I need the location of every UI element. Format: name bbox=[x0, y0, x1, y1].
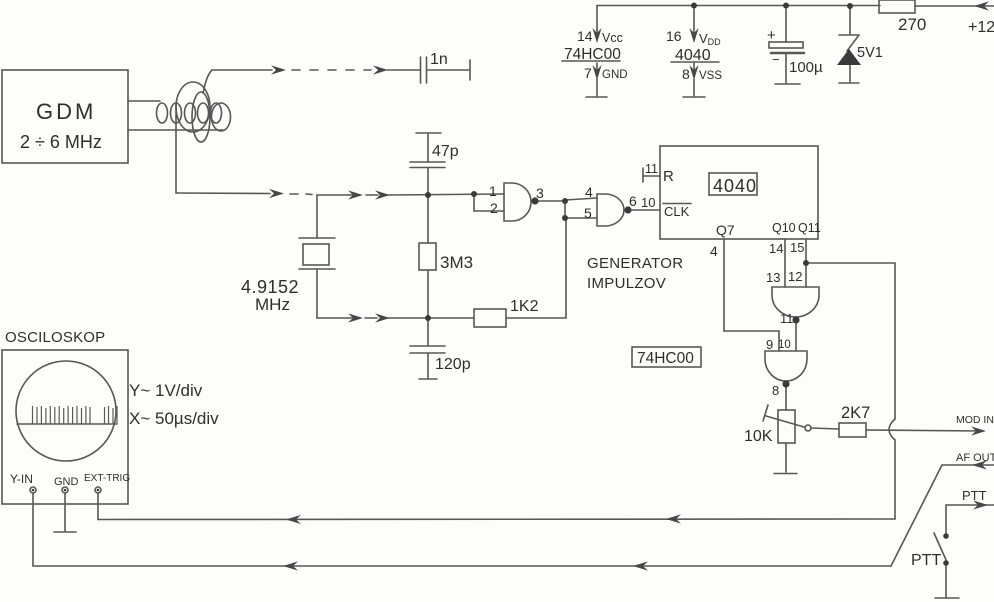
svg-text:2: 2 bbox=[490, 200, 498, 216]
svg-text:11: 11 bbox=[645, 162, 658, 176]
svg-text:Y~ 1V/div: Y~ 1V/div bbox=[129, 381, 203, 400]
svg-text:MOD IN: MOD IN bbox=[956, 414, 994, 426]
svg-text:8: 8 bbox=[682, 66, 690, 82]
svg-text:10: 10 bbox=[641, 195, 655, 210]
svg-text:PTT: PTT bbox=[962, 488, 987, 503]
svg-text:GENERATOR: GENERATOR bbox=[587, 255, 683, 272]
svg-text:EXT-TRIG: EXT-TRIG bbox=[84, 473, 130, 484]
svg-text:16: 16 bbox=[666, 28, 682, 44]
svg-text:1: 1 bbox=[489, 183, 497, 199]
svg-text:12: 12 bbox=[788, 269, 802, 284]
svg-text:4: 4 bbox=[585, 184, 593, 200]
svg-text:8: 8 bbox=[772, 383, 779, 398]
svg-text:5: 5 bbox=[584, 205, 592, 221]
svg-text:2K7: 2K7 bbox=[841, 404, 870, 422]
svg-text:GND: GND bbox=[54, 476, 79, 488]
svg-text:74HC00: 74HC00 bbox=[564, 46, 621, 63]
svg-text:270: 270 bbox=[898, 15, 926, 34]
svg-text:15: 15 bbox=[790, 240, 804, 255]
svg-text:7: 7 bbox=[584, 65, 592, 81]
svg-text:VDD: VDD bbox=[699, 31, 721, 47]
svg-text:R: R bbox=[663, 168, 674, 185]
svg-text:Vcc: Vcc bbox=[602, 31, 623, 45]
svg-text:3: 3 bbox=[536, 185, 544, 201]
svg-text:4040: 4040 bbox=[675, 47, 711, 64]
svg-text:AF OUT: AF OUT bbox=[956, 452, 994, 464]
svg-text:47p: 47p bbox=[432, 143, 459, 160]
svg-text:1n: 1n bbox=[430, 51, 448, 68]
svg-text:4.9152: 4.9152 bbox=[241, 277, 299, 297]
svg-text:Q10: Q10 bbox=[772, 221, 796, 235]
svg-text:10: 10 bbox=[778, 339, 791, 351]
svg-text:74HC00: 74HC00 bbox=[637, 350, 694, 367]
svg-text:14: 14 bbox=[769, 241, 783, 256]
svg-text:CLK: CLK bbox=[664, 204, 690, 219]
svg-text:MHz: MHz bbox=[255, 295, 290, 314]
svg-text:GND: GND bbox=[602, 69, 628, 81]
svg-text:Q7: Q7 bbox=[716, 222, 735, 238]
svg-text:3M3: 3M3 bbox=[440, 253, 473, 272]
svg-text:5V1: 5V1 bbox=[857, 45, 883, 61]
svg-text:10K: 10K bbox=[744, 428, 773, 445]
svg-text:9: 9 bbox=[766, 337, 773, 352]
svg-text:IMPULZOV: IMPULZOV bbox=[587, 275, 666, 292]
svg-text:4: 4 bbox=[710, 243, 718, 259]
svg-text:VSS: VSS bbox=[699, 70, 722, 82]
svg-text:PTT: PTT bbox=[911, 552, 941, 569]
svg-text:Q11: Q11 bbox=[798, 221, 821, 235]
svg-text:100µ: 100µ bbox=[789, 59, 823, 76]
svg-text:11: 11 bbox=[780, 311, 794, 326]
svg-text:+12: +12 bbox=[968, 19, 994, 36]
svg-text:120p: 120p bbox=[435, 356, 471, 373]
svg-text:2 ÷ 6 MHz: 2 ÷ 6 MHz bbox=[20, 132, 102, 152]
svg-text:Y-IN: Y-IN bbox=[10, 472, 33, 486]
svg-text:X~ 50µs/div: X~ 50µs/div bbox=[129, 409, 219, 428]
svg-text:14: 14 bbox=[577, 28, 593, 44]
svg-text:6: 6 bbox=[629, 193, 637, 209]
svg-text:13: 13 bbox=[766, 270, 780, 285]
svg-text:4040: 4040 bbox=[713, 176, 757, 196]
svg-text:GDM: GDM bbox=[36, 99, 96, 124]
svg-text:+: + bbox=[767, 27, 776, 44]
svg-text:−: − bbox=[772, 52, 780, 67]
svg-text:1K2: 1K2 bbox=[510, 298, 539, 315]
svg-text:OSCILOSKOP: OSCILOSKOP bbox=[5, 329, 105, 346]
